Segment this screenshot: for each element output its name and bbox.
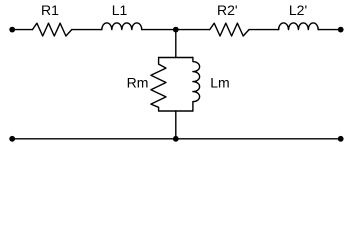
wire: parallel branch down to bottom rail xyxy=(175,111,177,139)
svg-text:L2': L2' xyxy=(289,2,307,18)
resistor R1 xyxy=(32,23,71,36)
svg-text:L1: L1 xyxy=(112,2,128,18)
svg-text:R1: R1 xyxy=(41,2,59,18)
node: right output terminal (top) xyxy=(338,27,344,33)
svg-text:Rm: Rm xyxy=(127,75,149,91)
svg-text:Lm: Lm xyxy=(210,75,229,91)
inductor L2' xyxy=(279,23,319,30)
wire: R1 to L1 xyxy=(72,29,102,31)
resistor R2' xyxy=(210,23,249,36)
wire: L2' to right terminal xyxy=(318,29,341,31)
wire: left terminal to R1 xyxy=(12,29,32,31)
inductor L1 xyxy=(102,23,142,30)
node: bottom center junction xyxy=(173,136,179,142)
inductor Lm xyxy=(193,58,200,112)
node: left input terminal (bottom) xyxy=(9,136,15,142)
wire: R2' to L2' xyxy=(249,29,279,31)
resistor Rm xyxy=(151,58,166,112)
wire: L1 to R2' through center node xyxy=(142,29,210,31)
wire: bottom rail xyxy=(12,138,341,140)
node: left input terminal (top) xyxy=(9,27,15,33)
svg-text:R2': R2' xyxy=(217,2,238,18)
node: right output terminal (bottom) xyxy=(338,136,344,142)
wire: top bar of Rm/Lm parallel branch xyxy=(159,57,193,59)
wire: bottom bar of Rm/Lm parallel branch xyxy=(159,110,193,112)
wire: top junction down to parallel branch xyxy=(175,30,177,58)
node: top center junction xyxy=(173,27,179,33)
